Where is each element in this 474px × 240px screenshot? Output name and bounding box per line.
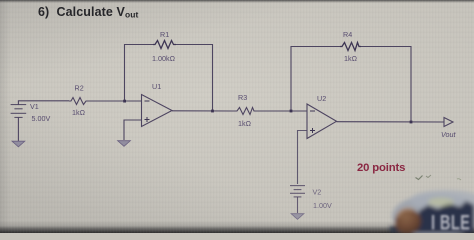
- op-amp input polarity marks U2: [310, 111, 315, 133]
- resistor R4: [340, 43, 361, 51]
- resistor R3: [235, 108, 256, 115]
- svg-text:Vout: Vout: [441, 130, 457, 139]
- wire: U1 output line: [172, 110, 235, 112]
- wire: V1 top to U1 inverting input (main input line): [18, 101, 69, 105]
- wire: R3 to U2 inverting input: [256, 110, 307, 112]
- wire: feedback 1 top + right vertical: [176, 45, 213, 112]
- ground under U1 + input: [118, 141, 131, 147]
- ground under V1: [12, 141, 25, 147]
- svg-text:1kΩ: 1kΩ: [344, 54, 358, 63]
- svg-text:R2: R2: [75, 84, 84, 93]
- svg-text:V2: V2: [313, 188, 322, 197]
- svg-text:U2: U2: [317, 94, 326, 103]
- smudge specks: [416, 176, 423, 180]
- svg-text:6) Calculate Vout: 6) Calculate Vout: [38, 5, 139, 20]
- wire: V2 bottom to ground: [297, 197, 299, 213]
- wire: U1 + input to ground: [124, 120, 142, 140]
- ground under V2: [291, 214, 304, 220]
- svg-text:R3: R3: [238, 93, 247, 102]
- wire: U2 + input down to V2: [298, 131, 308, 185]
- wire: U2 output to Vout arrow: [337, 121, 445, 123]
- svg-text:5.00V: 5.00V: [32, 114, 51, 123]
- svg-text:1.00kΩ: 1.00kΩ: [152, 54, 176, 63]
- battery V1: [11, 105, 27, 118]
- wire: feedback 1 left vertical: [125, 45, 154, 102]
- resistor R2: [69, 98, 88, 105]
- svg-text:V1: V1: [30, 102, 39, 111]
- wire: V1 bottom to ground: [17, 117, 19, 141]
- svg-text:1kΩ: 1kΩ: [72, 108, 86, 117]
- resistor R1: [153, 41, 176, 49]
- junction dot node C (U2 inv input): [290, 110, 293, 113]
- svg-text:20 points: 20 points: [357, 162, 405, 174]
- Vout arrowhead: [444, 118, 453, 127]
- junction dot node D (output/Vout): [410, 121, 413, 124]
- op-amp input polarity marks U1: [145, 101, 150, 122]
- svg-text:R1: R1: [160, 30, 169, 39]
- battery V2: [290, 186, 305, 197]
- svg-text:1.00V: 1.00V: [313, 201, 332, 210]
- wire: feedback 2 top + right vertical: [361, 47, 411, 123]
- svg-text:1kΩ: 1kΩ: [238, 119, 252, 128]
- op-amp U1: [142, 95, 173, 127]
- junction dot node B (U1 output): [211, 110, 214, 113]
- junction dot node A (U1 inv input): [123, 100, 126, 103]
- wire: feedback 2 left vertical: [291, 47, 340, 112]
- op-amp U2: [307, 104, 337, 139]
- svg-text:U1: U1: [152, 82, 161, 91]
- svg-text:R4: R4: [343, 30, 352, 39]
